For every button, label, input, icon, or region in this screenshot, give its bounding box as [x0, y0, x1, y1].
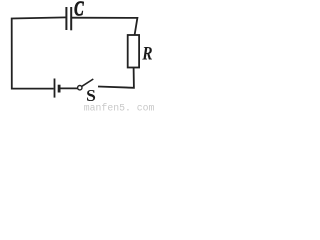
- svg-text:R: R: [141, 43, 152, 64]
- svg-text:manfen5. com: manfen5. com: [84, 103, 155, 112]
- svg-text:C: C: [74, 0, 84, 20]
